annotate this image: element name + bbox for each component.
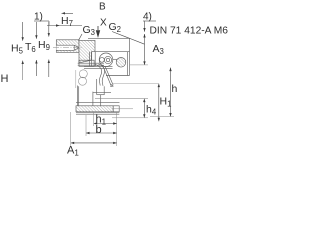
svg-text:A1: A1 [67,145,79,158]
svg-text:H1: H1 [160,96,172,109]
svg-text:H5: H5 [11,43,24,56]
svg-text:h: h [172,83,178,95]
svg-text:DIN 71 412-A M6: DIN 71 412-A M6 [150,26,229,37]
svg-text:G3: G3 [83,24,96,37]
svg-text:h4: h4 [146,104,157,117]
svg-text:G2: G2 [109,21,122,34]
svg-text:H: H [1,73,9,85]
svg-text:1): 1) [34,12,43,23]
svg-text:A3: A3 [153,43,164,56]
svg-text:H7: H7 [61,15,73,28]
svg-text:B: B [99,2,106,13]
svg-text:T6: T6 [25,41,36,54]
svg-text:X: X [100,18,107,29]
svg-text:H9: H9 [38,39,50,52]
svg-text:b: b [96,124,102,136]
svg-text:4): 4) [143,12,152,23]
